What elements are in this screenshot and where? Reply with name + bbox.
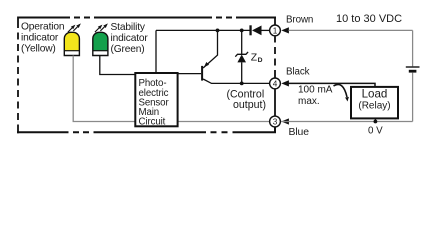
brown wire to supply xyxy=(289,29,413,31)
battery BT1 xyxy=(406,67,420,71)
light emission arrows of yellow LED xyxy=(68,23,81,32)
junction dot rail/emitter xyxy=(216,29,220,33)
wire green LED to main circuit xyxy=(100,56,136,75)
dashed enclosure bottom edge (0V rail) xyxy=(17,131,228,133)
svg-text:(Yellow): (Yellow) xyxy=(21,44,56,55)
curved annotation arrow 100 mA xyxy=(334,84,348,97)
svg-text:Circuit: Circuit xyxy=(139,117,166,128)
svg-text:1: 1 xyxy=(273,27,278,36)
arrow into terminal 1 xyxy=(281,27,289,33)
svg-text:Black: Black xyxy=(286,66,310,77)
supply right vertical lower xyxy=(412,73,414,122)
wire load to 0V line xyxy=(374,118,376,121)
junction dot zener/output xyxy=(240,82,244,86)
junction dot rail/zener xyxy=(240,29,244,33)
label Control output xyxy=(227,89,266,112)
svg-text:Blue: Blue xyxy=(289,127,310,138)
arrow into terminal 4 xyxy=(281,80,289,86)
blue wire terminal 3 to 0V xyxy=(281,121,413,123)
load box (Relay) xyxy=(351,87,398,119)
wire rail to main circuit top xyxy=(155,30,157,73)
svg-text:3: 3 xyxy=(273,118,278,127)
light emission arrows of green LED xyxy=(95,23,108,32)
dashed enclosure top edge xyxy=(18,17,276,19)
zener diode ZD xyxy=(235,30,248,83)
wire terminal 4 to terminal 3 (right edge solid) xyxy=(274,89,276,116)
label Operation indicator (Yellow) xyxy=(21,22,64,55)
svg-text:4: 4 xyxy=(273,80,278,89)
LED D2 stability indicator (green) xyxy=(93,32,108,55)
terminal 1 xyxy=(270,25,281,36)
black wire terminal 4 to load xyxy=(289,83,376,87)
svg-text:Brown: Brown xyxy=(286,14,313,25)
svg-text:(Green): (Green) xyxy=(111,44,145,55)
svg-text:Operation: Operation xyxy=(21,22,64,33)
label Stability indicator (Green) xyxy=(111,22,149,55)
svg-text:10 to 30 VDC: 10 to 30 VDC xyxy=(336,13,402,25)
terminal 3 xyxy=(270,116,281,127)
diode D3 reverse polarity protection xyxy=(249,25,261,35)
arrow into terminal 3 xyxy=(281,118,289,124)
top supply rail xyxy=(156,29,251,31)
dashed enclosure right edge between terminal 1 and terminal 4 xyxy=(274,37,276,78)
svg-text:max.: max. xyxy=(298,96,320,107)
svg-text:100 mA: 100 mA xyxy=(298,85,333,96)
dashed enclosure left edge xyxy=(17,17,19,134)
terminal 4 xyxy=(270,78,281,89)
wire yellow LED to 0V line (gray, passes behind main circuit) xyxy=(73,56,269,122)
svg-text:(Relay): (Relay) xyxy=(358,100,390,111)
svg-text:D: D xyxy=(258,57,263,64)
wire main circuit to transistor base xyxy=(178,73,202,75)
dashed enclosure right edge top segment xyxy=(274,17,276,26)
svg-text:indicator: indicator xyxy=(111,33,149,44)
supply right vertical upper xyxy=(412,30,414,66)
svg-text:output): output) xyxy=(233,99,266,111)
svg-text:0 V: 0 V xyxy=(368,126,383,137)
main circuit box U1 xyxy=(135,73,177,128)
transistor Q1 (PNP output) xyxy=(201,30,270,83)
LED D1 operation indicator (yellow) xyxy=(64,32,79,55)
svg-text:Stability: Stability xyxy=(111,22,146,33)
svg-text:indicator: indicator xyxy=(21,33,59,44)
wire terminal 3 to 0V rail xyxy=(233,127,276,132)
junction dot load/0V xyxy=(374,120,378,124)
svg-text:Load: Load xyxy=(362,87,388,100)
